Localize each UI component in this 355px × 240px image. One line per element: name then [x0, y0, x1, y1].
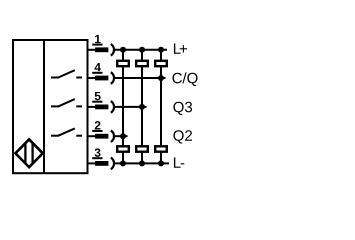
load resistor R4 (bottom, column 1)	[117, 146, 129, 151]
pin 4 connector	[88, 72, 114, 84]
wire load column 1	[122, 50, 124, 164]
switch contact S1 (C/Q output)	[51, 70, 82, 77]
pin 5 connector	[88, 101, 114, 113]
switch contact S3 (Q2 output)	[51, 128, 82, 135]
label Q3	[173, 102, 192, 115]
load resistor R1 (top, column 1)	[117, 61, 129, 66]
load resistor R2 (top, column 2)	[136, 61, 148, 66]
load resistor R5 (bottom, column 2)	[136, 146, 148, 151]
pin number 3	[95, 148, 101, 157]
label L-	[174, 157, 184, 167]
wire load column 3	[160, 50, 162, 164]
wire Q3 bus	[115, 106, 147, 108]
wire C/Q bus	[115, 77, 166, 79]
junction L- / column 1	[120, 160, 126, 166]
wire L- bus	[115, 162, 169, 164]
switch contact S2 (Q3 output)	[51, 99, 82, 106]
load resistor R3 (top, column 3)	[155, 61, 167, 66]
junction L- / column 3	[158, 160, 164, 166]
label C/Q	[172, 72, 197, 86]
junction Q2 / column 1	[120, 133, 126, 139]
wire Q2 bus	[115, 135, 128, 137]
junction C/Q / column 3	[158, 75, 164, 81]
pin 2 connector	[88, 130, 114, 142]
junction L+ / column 3	[158, 47, 164, 53]
junction L+ / column 1	[120, 47, 126, 53]
label Q2	[173, 130, 192, 143]
pin number 5	[95, 92, 101, 100]
inductive sensor symbol (diamond)	[15, 139, 42, 167]
sensor body box	[13, 40, 88, 173]
wire load column 2	[141, 50, 143, 164]
load resistor R6 (bottom, column 3)	[155, 146, 167, 151]
label L+	[174, 43, 187, 53]
wire L+ bus	[115, 49, 167, 51]
pin number 1	[95, 35, 101, 43]
pin 1 connector	[88, 44, 114, 56]
pin number 2	[95, 121, 101, 129]
junction L+ / column 2	[139, 47, 145, 53]
junction L- / column 2	[139, 160, 145, 166]
junction Q3 / column 2	[139, 104, 145, 110]
pin number 4	[94, 63, 100, 71]
sensor body divider	[43, 40, 45, 173]
pin 3 connector	[88, 158, 114, 170]
